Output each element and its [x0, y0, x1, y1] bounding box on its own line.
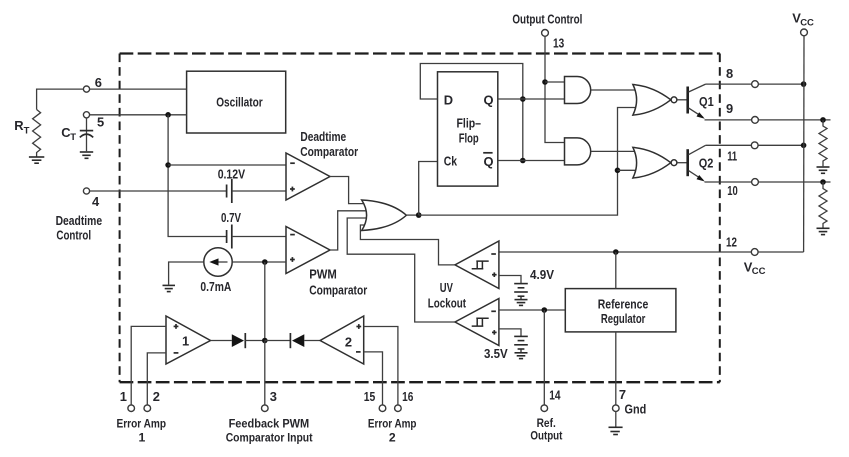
wire pin4 to 0.12V source: [89, 190, 226, 192]
wire pin9 emitter line: [705, 119, 831, 121]
flip-flop U-ff: [438, 72, 498, 186]
pin 13 terminal: [512, 12, 582, 51]
junction node VCC line to reference regulator: [613, 249, 619, 255]
label 4.9V: [530, 267, 554, 282]
timing rail wire from pin5 node down to 0.7V row: [168, 115, 227, 237]
svg-text:Comparator: Comparator: [300, 144, 358, 159]
pin 1 terminal: [120, 389, 135, 412]
svg-text:0.7mA: 0.7mA: [200, 279, 231, 294]
wire current source to ground: [169, 262, 204, 285]
op-amp UV lockout comparator 2: [455, 299, 499, 346]
svg-text:2: 2: [345, 334, 352, 349]
wire Qbar output to AND2: [498, 160, 565, 162]
svg-text:2: 2: [389, 431, 396, 445]
wire pin10 emitter line: [705, 181, 831, 183]
pin 4 terminal: [56, 188, 103, 243]
pin 8 terminal: [726, 66, 758, 88]
label 3.5V: [484, 346, 508, 361]
wire OR output to junction: [406, 214, 418, 216]
ground below CT: [80, 152, 93, 158]
svg-text:T: T: [70, 132, 76, 143]
pin 2 terminal: [144, 389, 160, 412]
pin 6 terminal: [83, 75, 102, 92]
wire pin11 collector line: [706, 144, 804, 146]
junction node pin13 to AND1: [542, 79, 548, 85]
junction node pin8 to VCC rail: [801, 81, 807, 87]
wire node to reference regulator top: [615, 252, 617, 289]
capacitor CT: [61, 118, 93, 151]
wire current source to PWM comparator plus input: [232, 261, 286, 263]
battery 0.12V: [218, 166, 246, 203]
junction node feedback at Q: [520, 96, 526, 102]
IC boundary dashed border: [120, 54, 720, 383]
junction node NOR rail to NOR2: [615, 168, 621, 174]
wire error amp2 plus input to pin 16: [364, 327, 398, 406]
ground below 3.5V: [515, 353, 528, 359]
svg-text:CC: CC: [752, 266, 766, 277]
ground below pin 7: [609, 411, 623, 434]
svg-text:9: 9: [726, 101, 733, 116]
junction node OR output / Ck: [416, 212, 422, 218]
wire error amp1 output to diode: [211, 340, 232, 342]
svg-text:Regulator: Regulator: [601, 311, 646, 326]
svg-text:Flop: Flop: [459, 130, 479, 145]
wire AND2 output to NOR2 upper input: [591, 150, 641, 152]
svg-text:14: 14: [549, 387, 561, 402]
svg-text:Ck: Ck: [444, 154, 458, 169]
svg-text:Q: Q: [484, 93, 494, 108]
resistor emitter load 1: [819, 120, 827, 166]
wire UV2 minus to reference regulator: [499, 309, 565, 311]
wire NOR rail to NOR2 lower input: [618, 169, 642, 171]
wire AND1 output to NOR1 upper input: [591, 89, 641, 91]
pin 14 terminal: [530, 387, 562, 442]
op-amp error amp 1: [166, 316, 211, 364]
svg-text:Deadtime: Deadtime: [56, 213, 103, 228]
pin 9 terminal: [726, 101, 758, 123]
wire pin6 to oscillator: [89, 88, 186, 90]
op-amp PWM comparator: [286, 227, 367, 298]
svg-text:16: 16: [402, 389, 413, 404]
wire PWM comparator output to OR input2: [330, 211, 369, 250]
junction node pin5/timing rail: [165, 112, 171, 118]
svg-text:13: 13: [553, 35, 564, 50]
svg-text:Control: Control: [56, 228, 91, 243]
wire pin5 to oscillator: [89, 114, 186, 116]
svg-text:1: 1: [139, 431, 146, 445]
junction node pin14 ref output: [542, 307, 548, 313]
svg-text:Reference: Reference: [598, 297, 649, 312]
wire node to deadtime comparator minus input: [168, 164, 286, 166]
svg-text:Deadtime: Deadtime: [300, 129, 346, 144]
svg-text:5: 5: [97, 115, 104, 130]
svg-text:Flip–: Flip–: [457, 116, 482, 131]
ground below load resistor 2: [817, 228, 830, 234]
battery 3.5V: [514, 336, 528, 352]
svg-text:Gnd: Gnd: [625, 402, 647, 417]
svg-text:Oscillator: Oscillator: [216, 95, 263, 110]
wire NOR1 to Q1 base: [677, 99, 687, 101]
wire pin6 to RT: [37, 89, 84, 109]
svg-text:6: 6: [95, 75, 102, 90]
wire node to pin 14: [543, 310, 545, 405]
wire error amp1 minus input to pin 2: [147, 353, 166, 405]
wire diode D1 to feedback node: [245, 340, 264, 342]
svg-text:PWM: PWM: [309, 266, 337, 281]
VCC terminal top: [792, 11, 814, 36]
svg-text:D: D: [444, 93, 453, 108]
label error amp 1: [117, 417, 167, 445]
ground below current source: [163, 285, 176, 291]
wire Q output to AND1: [498, 98, 565, 100]
wire pin8 collector line: [706, 83, 804, 85]
junction node pin9 to load resistor: [820, 117, 826, 123]
wire UV2 plus to 3.5V battery: [499, 329, 521, 336]
wire VCC rail: [803, 36, 805, 253]
svg-text:Feedback PWM: Feedback PWM: [229, 417, 310, 431]
resistor emitter load 2: [819, 182, 827, 228]
current source 0.7mA: [200, 248, 232, 294]
resistor RT: [14, 110, 40, 158]
junction node deadtime minus: [165, 162, 171, 168]
wire 0.7V to PWM comparator minus input: [232, 236, 286, 238]
svg-text:Q1: Q1: [699, 94, 714, 109]
pin 7 terminal: [613, 387, 647, 417]
svg-text:Error Amp: Error Amp: [368, 417, 417, 431]
diode D1: [232, 333, 246, 348]
svg-text:8: 8: [726, 66, 733, 81]
wire pin12 VCC line: [499, 251, 804, 253]
junction node pin10 to load resistor: [820, 179, 826, 185]
wire 0.12V to deadtime comparator plus input: [232, 190, 286, 192]
svg-text:0.7V: 0.7V: [221, 210, 241, 225]
pin 11 terminal: [727, 142, 758, 164]
wire feedback node to diode D2: [265, 340, 291, 342]
wire flip-flop feedback Qbar to D: [420, 64, 523, 161]
battery 4.9V: [514, 284, 528, 300]
wire error amp1 plus input to pin 1: [131, 326, 166, 405]
or-gate U-or (4 input): [362, 200, 407, 231]
wire UV lockout comparator1 output to OR input4: [360, 225, 455, 265]
pin 5 terminal: [83, 112, 104, 130]
svg-text:3: 3: [270, 389, 277, 404]
wire NOR2 to Q2 base: [677, 162, 687, 164]
transistor Q1: [688, 84, 714, 119]
svg-text:T: T: [24, 126, 30, 137]
svg-text:Output Control: Output Control: [512, 12, 582, 27]
reference regulator U-ref box: [565, 289, 676, 332]
svg-text:Error Amp: Error Amp: [117, 417, 167, 431]
op-amp deadtime comparator: [286, 129, 358, 200]
wire diode D2 to error amp 2: [304, 340, 320, 342]
svg-text:0.12V: 0.12V: [218, 166, 246, 181]
ground below 4.9V: [515, 300, 528, 306]
op-amp UV lockout comparator 1: [455, 241, 499, 289]
wire error amp2 minus input to pin 15: [364, 352, 383, 405]
op-amp error amp 2: [320, 316, 364, 364]
svg-text:UV: UV: [440, 280, 453, 295]
svg-text:Comparator Input: Comparator Input: [226, 431, 313, 445]
wire UV1 plus to 4.9V battery: [499, 276, 521, 284]
diode D2: [290, 333, 304, 348]
ground below load resistor 1: [817, 167, 830, 173]
pin 10 terminal: [727, 179, 758, 199]
pin 3 terminal: [226, 389, 313, 445]
label UV lockout: [428, 280, 467, 310]
pin 12 terminal: [726, 235, 766, 278]
svg-text:C: C: [61, 125, 70, 140]
wire pin13 output control vertical: [545, 36, 565, 143]
junction node feedback/PWM plus: [262, 259, 268, 265]
svg-text:4: 4: [92, 194, 100, 209]
ground below RT: [29, 157, 44, 163]
nor-gate U-nor2: [633, 147, 677, 178]
nor-gate U-nor1: [633, 85, 677, 116]
wire OR output to flip-flop Ck: [419, 162, 438, 216]
and-gate U-and1: [565, 77, 591, 104]
svg-text:12: 12: [726, 235, 737, 250]
pin 15 terminal: [364, 389, 386, 412]
svg-text:Lockout: Lockout: [428, 295, 467, 310]
svg-text:2: 2: [153, 389, 160, 404]
svg-text:1: 1: [120, 389, 127, 404]
wire deadtime comparator output to OR input1: [330, 177, 368, 204]
junction node pin11 to VCC rail: [801, 143, 807, 149]
svg-text:Q2: Q2: [699, 156, 714, 171]
transistor Q2: [688, 145, 714, 181]
svg-text:CC: CC: [800, 17, 814, 28]
svg-text:1: 1: [182, 334, 189, 349]
svg-text:4.9V: 4.9V: [530, 267, 554, 282]
oscillator U-osc box: [187, 71, 286, 133]
svg-text:7: 7: [619, 387, 626, 402]
svg-text:Q: Q: [484, 154, 494, 169]
svg-text:10: 10: [727, 183, 738, 198]
svg-text:Comparator: Comparator: [309, 283, 367, 298]
svg-text:Output: Output: [530, 429, 562, 443]
label error amp 2: [368, 417, 417, 445]
svg-text:3.5V: 3.5V: [484, 346, 508, 361]
svg-text:11: 11: [727, 149, 737, 164]
junction node feedback at Qbar: [520, 158, 526, 164]
wire OR output to NOR rail: [419, 108, 641, 216]
wire feedback node to pin 3: [264, 341, 266, 406]
and-gate U-and2: [565, 138, 591, 165]
wire feedback vertical: [264, 262, 266, 341]
wire UV lockout comparator2 output to OR input3: [347, 218, 455, 322]
svg-text:15: 15: [364, 389, 376, 404]
battery 0.7V: [221, 210, 241, 248]
pin 16 terminal: [395, 389, 414, 412]
wire reference regulator to pin 7: [615, 332, 617, 405]
junction node feedback / pin3: [262, 338, 268, 344]
wire pin13 node to AND1 upper input: [545, 81, 565, 83]
